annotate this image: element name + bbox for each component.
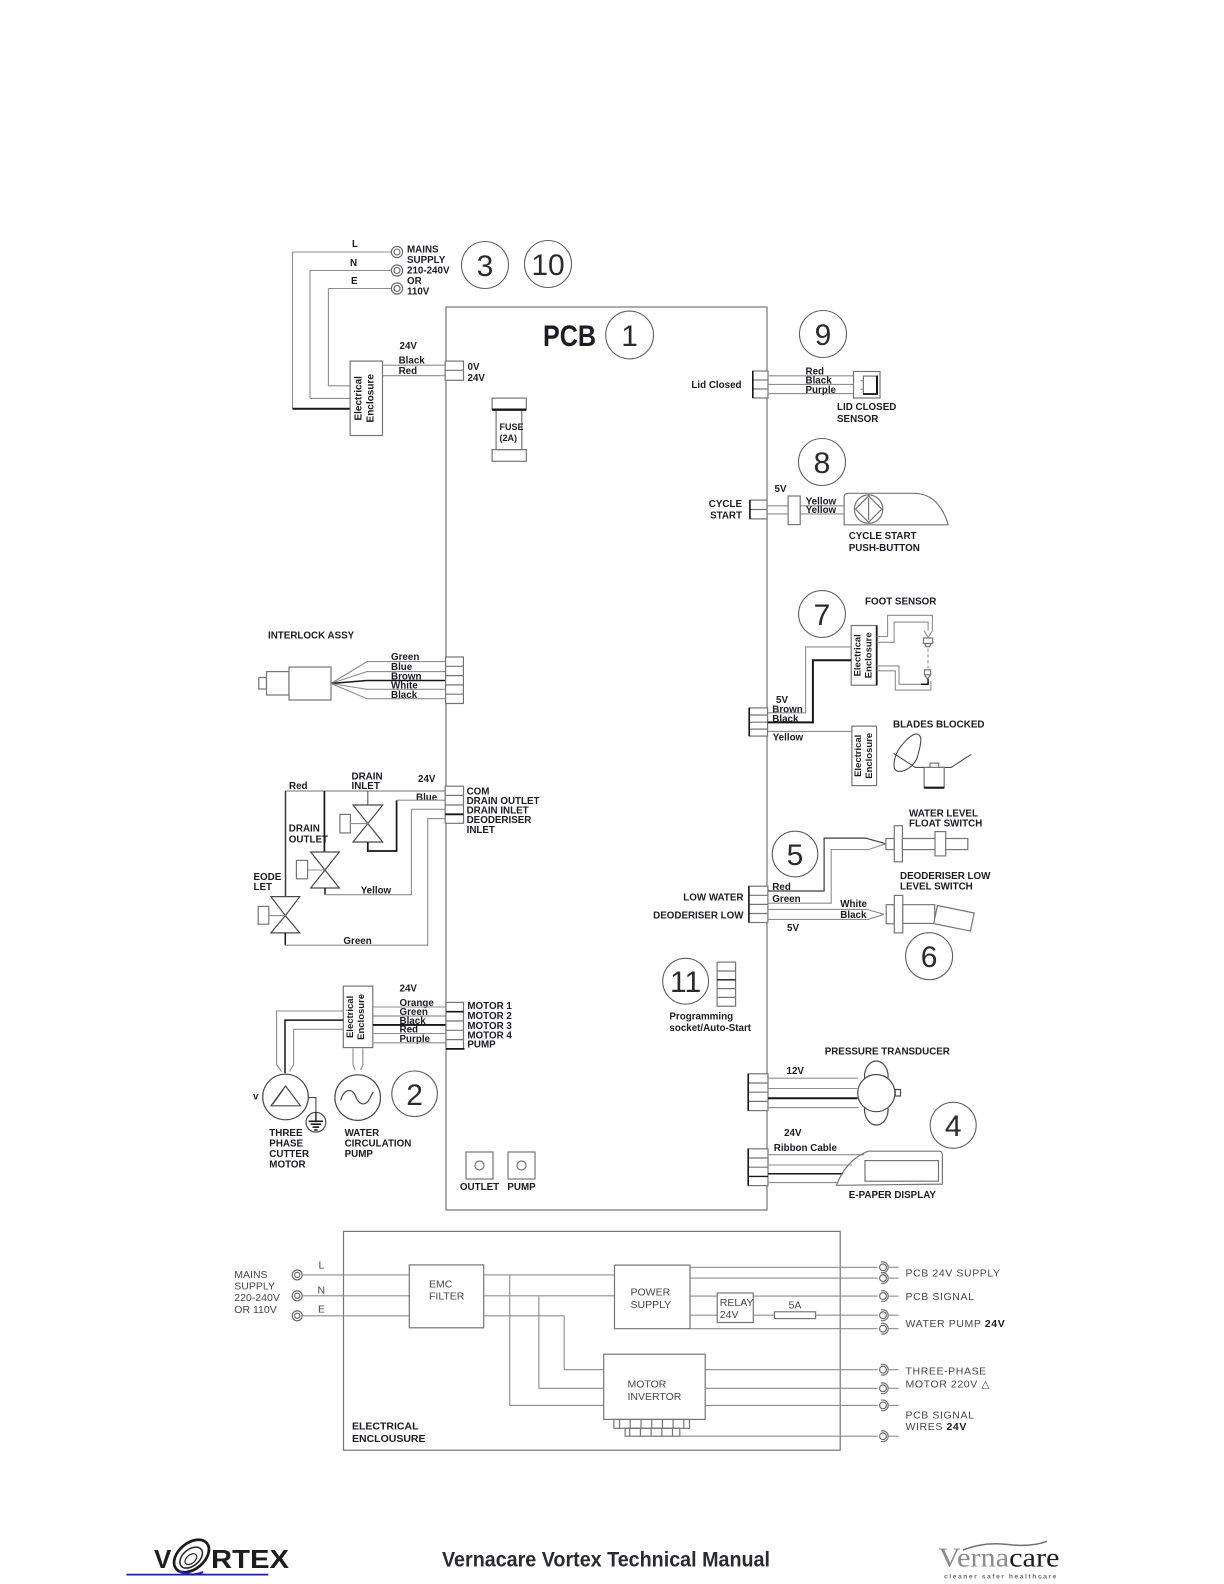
svg-text:Lid Closed: Lid Closed xyxy=(691,380,741,391)
label black xyxy=(840,910,867,921)
label v xyxy=(253,1092,259,1103)
svg-text:MAINS: MAINS xyxy=(407,245,439,256)
svg-text:E: E xyxy=(318,1304,325,1316)
label Black xyxy=(772,714,799,725)
label pcb 24v supply xyxy=(906,1267,1001,1279)
EMC filter box xyxy=(409,1265,483,1328)
pin labels valves xyxy=(467,786,540,836)
node pcb signal wires b xyxy=(880,1431,899,1442)
svg-text:9: 9 xyxy=(815,319,832,352)
wire tap E to invertor xyxy=(564,1316,604,1370)
label L xyxy=(352,239,358,250)
wire PS to PCB 24V supply 2 xyxy=(690,1277,878,1279)
node three-phase a xyxy=(880,1364,899,1375)
svg-text:Ribbon Cable: Ribbon Cable xyxy=(774,1143,838,1154)
svg-text:5V: 5V xyxy=(787,923,799,934)
svg-text:White: White xyxy=(840,899,867,910)
svg-text:Red: Red xyxy=(289,781,308,792)
programming socket connector xyxy=(717,962,736,1006)
wire E down to enclosure xyxy=(327,289,329,386)
node water pump a xyxy=(880,1310,899,1321)
svg-text:24V: 24V xyxy=(784,1128,802,1139)
svg-text:6: 6 xyxy=(921,941,938,974)
wire Red enclosure to PCB 24V xyxy=(383,375,447,377)
svg-text:24V: 24V xyxy=(418,774,436,785)
PCB main board outline xyxy=(446,307,767,1210)
label 12V xyxy=(787,1066,805,1077)
svg-text:Yellow: Yellow xyxy=(773,732,804,743)
svg-text:CYCLE: CYCLE xyxy=(709,499,743,510)
label 5V xyxy=(775,484,787,495)
svg-text:L: L xyxy=(352,239,358,250)
wires enclosure to PCB motor pins xyxy=(373,1007,447,1043)
node E terminal xyxy=(292,1311,302,1321)
interlock fan wires xyxy=(331,662,446,699)
label Red xyxy=(806,366,825,377)
label low water xyxy=(683,892,743,903)
power supply box xyxy=(615,1265,691,1329)
label 24V xyxy=(400,984,418,995)
svg-text:8: 8 xyxy=(814,447,831,480)
valve deoderiser inlet xyxy=(258,897,300,933)
ribbon wires xyxy=(768,1155,864,1183)
svg-text:LID CLOSED: LID CLOSED xyxy=(837,402,896,413)
svg-text:Enclosure: Enclosure xyxy=(366,374,377,423)
svg-text:PCB 24V SUPPLY: PCB 24V SUPPLY xyxy=(906,1267,1001,1279)
invertor connector teeth row 2 xyxy=(625,1428,680,1436)
svg-text:24V: 24V xyxy=(468,373,486,384)
svg-text:1: 1 xyxy=(621,320,638,353)
wire relay to fuse xyxy=(753,1314,774,1316)
label deoderiser low level switch xyxy=(900,871,991,893)
svg-text:OR: OR xyxy=(407,276,422,287)
wire Red bus vertical xyxy=(285,791,287,897)
svg-text:Green: Green xyxy=(343,936,371,947)
wire PS to PCB signal xyxy=(690,1295,878,1297)
wire Black enclosure to PCB 0V xyxy=(383,364,447,366)
blade drawing xyxy=(894,734,972,788)
wire E EMC to invertor tap xyxy=(484,1315,565,1317)
wire Red bus to COM xyxy=(286,790,446,792)
svg-text:PCB SIGNAL: PCB SIGNAL xyxy=(906,1291,975,1303)
wire E horizontal xyxy=(328,288,391,290)
label three phase cutter motor xyxy=(269,1128,309,1171)
svg-text:THREE: THREE xyxy=(269,1128,303,1139)
wire yellow 2 xyxy=(767,513,844,515)
wire fuse to water pump terminal xyxy=(816,1314,878,1316)
svg-text:Electrical: Electrical xyxy=(345,996,356,1038)
wire Red to float switch xyxy=(768,838,886,891)
svg-text:E-PAPER DISPLAY: E-PAPER DISPLAY xyxy=(849,1190,937,1201)
svg-text:MOTOR 220V △: MOTOR 220V △ xyxy=(906,1379,991,1391)
label mains supply xyxy=(407,245,450,298)
wire L to EMC xyxy=(302,1274,409,1276)
label programming socket xyxy=(669,1011,751,1034)
label Green xyxy=(343,936,371,947)
svg-text:Enclosure: Enclosure xyxy=(863,632,874,678)
label L xyxy=(319,1259,325,1271)
label blades blocked xyxy=(893,720,984,731)
electrical enclosure (foot sensor) xyxy=(851,626,877,686)
wire labels green/blue/brown/white/black xyxy=(391,652,421,701)
footer title xyxy=(442,1548,770,1571)
label Yellow 1 xyxy=(806,497,837,508)
connector cycle start on PCB edge xyxy=(750,500,767,519)
svg-text:FUSE: FUSE xyxy=(500,422,524,432)
svg-text:5V: 5V xyxy=(775,484,787,495)
wire L down to enclosure xyxy=(292,252,294,409)
svg-text:24V: 24V xyxy=(400,984,418,995)
lid closed sensor body xyxy=(854,372,881,399)
svg-text:START: START xyxy=(710,511,742,522)
svg-text:(2A): (2A) xyxy=(500,433,518,443)
wires enclosure to cutter motor xyxy=(277,1011,344,1073)
svg-text:Programming: Programming xyxy=(669,1011,733,1022)
svg-text:PUMP: PUMP xyxy=(467,1040,496,1051)
svg-text:WATER: WATER xyxy=(345,1128,380,1139)
label pcb signal wires 24v xyxy=(906,1410,975,1434)
wire Green to float switch xyxy=(768,844,886,903)
relay box xyxy=(717,1293,753,1323)
svg-text:Yellow: Yellow xyxy=(806,505,837,516)
label pressure transducer xyxy=(825,1047,950,1058)
invertor connector teeth row 1 xyxy=(614,1419,690,1428)
node pcb 24v supply a xyxy=(880,1262,899,1273)
wire drain outlet feed (black) xyxy=(323,791,325,852)
svg-text:LET: LET xyxy=(254,882,273,893)
wire tap L to invertor xyxy=(510,1275,604,1406)
svg-text:FILTER: FILTER xyxy=(429,1291,465,1303)
electrical enclosure (mains) xyxy=(350,361,382,435)
label Yellow xyxy=(361,886,392,897)
wire teeth to pcb signal wires 2 xyxy=(680,1435,878,1437)
callout circle 3 xyxy=(462,242,509,289)
pin labels motors xyxy=(467,1001,512,1050)
wire L into enclosure (black) xyxy=(293,408,351,410)
label Brown xyxy=(772,704,802,715)
wires enclosure to pump xyxy=(353,1048,363,1070)
motor invertor box xyxy=(604,1354,706,1419)
label E xyxy=(318,1304,325,1316)
svg-text:FOOT SENSOR: FOOT SENSOR xyxy=(865,597,936,608)
wire N EMC to power supply xyxy=(484,1295,615,1297)
label water circulation pump xyxy=(345,1128,412,1160)
svg-text:RELAY: RELAY xyxy=(720,1297,754,1309)
svg-text:Yellow: Yellow xyxy=(361,886,392,897)
motor wire labels xyxy=(400,998,435,1045)
label Red xyxy=(289,781,308,792)
node three-phase b xyxy=(880,1383,899,1394)
wire White to level switch xyxy=(768,909,884,914)
wire Black to lid sensor xyxy=(768,383,854,385)
svg-text:SUPPLY: SUPPLY xyxy=(234,1281,275,1293)
label electrical enclousure xyxy=(352,1421,426,1445)
ground symbol xyxy=(306,1098,326,1133)
svg-text:ENCLOUSURE: ENCLOUSURE xyxy=(352,1433,426,1445)
connector 12V on PCB edge xyxy=(748,1074,768,1111)
svg-text:THREE-PHASE: THREE-PHASE xyxy=(906,1366,987,1378)
label lid closed sensor xyxy=(837,402,896,425)
svg-text:MAINS: MAINS xyxy=(234,1269,267,1281)
svg-text:Black: Black xyxy=(391,690,418,701)
svg-text:OR 110V: OR 110V xyxy=(234,1304,276,1316)
cable grommet xyxy=(788,496,800,525)
svg-text:MOTOR: MOTOR xyxy=(628,1378,667,1390)
label Red xyxy=(399,366,418,377)
label Red xyxy=(772,882,791,893)
wire Black to level switch xyxy=(768,914,884,919)
callout circle 9 xyxy=(800,311,847,358)
svg-text:PUSH-BUTTON: PUSH-BUTTON xyxy=(849,543,920,554)
svg-text:Vernacare Vortex Technical Man: Vernacare Vortex Technical Manual xyxy=(442,1548,770,1571)
connector foot sensor on PCB edge xyxy=(749,708,767,736)
wire Black xyxy=(768,660,852,722)
wire E into enclosure xyxy=(328,385,350,387)
svg-text:7: 7 xyxy=(814,599,831,632)
svg-text:11: 11 xyxy=(670,966,701,999)
svg-text:0V: 0V xyxy=(468,362,480,373)
svg-text:INLET: INLET xyxy=(352,781,380,792)
svg-text:RTEX: RTEX xyxy=(211,1544,290,1574)
connector interlock on PCB edge xyxy=(446,657,464,704)
svg-text:DEODERISER LOW: DEODERISER LOW xyxy=(653,910,744,921)
svg-text:5A: 5A xyxy=(789,1300,802,1312)
cycle start push-button body xyxy=(844,493,948,525)
svg-text:PRESSURE TRANSDUCER: PRESSURE TRANSDUCER xyxy=(825,1047,950,1058)
label cycle start xyxy=(709,499,743,522)
svg-text:24V: 24V xyxy=(720,1309,739,1321)
wire invertor to pcb signal wires 1 xyxy=(705,1404,877,1406)
svg-text:E: E xyxy=(351,276,358,287)
svg-text:Black: Black xyxy=(399,355,426,366)
svg-text:N: N xyxy=(318,1284,326,1296)
svg-text:BLADES BLOCKED: BLADES BLOCKED xyxy=(893,720,984,731)
node pcb signal wires a xyxy=(880,1400,899,1411)
svg-text:3: 3 xyxy=(477,250,494,283)
svg-text:Enclosure: Enclosure xyxy=(356,994,367,1040)
interlock solenoid body xyxy=(259,667,331,700)
label 24V xyxy=(784,1128,802,1139)
svg-text:L: L xyxy=(319,1259,325,1271)
label N xyxy=(350,258,357,269)
label Black xyxy=(399,355,426,366)
svg-text:SUPPLY: SUPPLY xyxy=(407,255,446,266)
svg-text:WATER PUMP 24V: WATER PUMP 24V xyxy=(906,1318,1006,1330)
svg-text:CUTTER: CUTTER xyxy=(269,1149,309,1160)
svg-text:110V: 110V xyxy=(407,287,430,298)
callout circle 2 xyxy=(392,1071,438,1117)
wire L EMC to power supply xyxy=(484,1274,615,1276)
label Purple xyxy=(806,385,837,396)
svg-text:LOW WATER: LOW WATER xyxy=(683,892,743,903)
connector ribbon on PCB edge xyxy=(748,1149,768,1186)
label water level float switch xyxy=(909,808,982,829)
svg-text:cleaner safer healthcare: cleaner safer healthcare xyxy=(944,1574,1058,1581)
pin label 0V xyxy=(468,362,480,373)
svg-text:N: N xyxy=(350,258,357,269)
deoderiser low level switch xyxy=(886,895,974,933)
svg-text:POWER: POWER xyxy=(631,1287,671,1299)
node E terminal xyxy=(391,283,402,294)
svg-text:OUTLET: OUTLET xyxy=(289,835,328,846)
svg-text:WIRES 24V: WIRES 24V xyxy=(906,1421,967,1433)
wire N horizontal xyxy=(310,270,392,272)
label mains supply xyxy=(234,1269,280,1316)
svg-text:PHASE: PHASE xyxy=(269,1139,303,1150)
wire green from deoderiser valve xyxy=(285,819,445,946)
wire yellow from drain outlet valve xyxy=(325,809,445,894)
wire Purple to lid sensor xyxy=(768,393,854,395)
svg-text:Electrical: Electrical xyxy=(852,634,863,676)
node L terminal xyxy=(391,246,402,257)
svg-text:PCB: PCB xyxy=(543,320,596,353)
wire yellow 1 xyxy=(767,505,844,507)
callout circle 4 xyxy=(930,1102,976,1148)
label three-phase motor xyxy=(906,1366,991,1391)
svg-text:PCB SIGNAL: PCB SIGNAL xyxy=(906,1410,975,1422)
pressure transducer body xyxy=(858,1061,901,1125)
connector motors on PCB edge xyxy=(446,1002,465,1049)
wire N into enclosure xyxy=(310,397,350,399)
wire Red to lid sensor xyxy=(768,375,854,377)
svg-text:5: 5 xyxy=(787,839,804,872)
label foot sensor xyxy=(865,597,936,608)
node pcb signal xyxy=(880,1291,899,1302)
wire PS bottom to water pump terminal 2 xyxy=(690,1328,878,1330)
svg-text:PUMP: PUMP xyxy=(345,1149,374,1160)
label cycle start push-button xyxy=(849,531,920,554)
wire N to EMC xyxy=(302,1295,409,1297)
vernacare logo xyxy=(939,1541,1060,1580)
wire tap N to invertor xyxy=(539,1296,604,1389)
svg-text:SUPPLY: SUPPLY xyxy=(631,1299,672,1311)
wires to pressure transducer xyxy=(768,1078,859,1107)
connector valves on PCB edge xyxy=(445,786,463,823)
svg-text:MOTOR: MOTOR xyxy=(269,1160,305,1171)
svg-text:INLET: INLET xyxy=(467,825,495,836)
wire L horizontal xyxy=(293,251,392,253)
label water pump 24v xyxy=(906,1318,1006,1330)
PCB title xyxy=(543,320,596,353)
wire invertor to three-phase terminal 1 xyxy=(705,1369,877,1371)
callout circle 1 xyxy=(606,311,654,359)
svg-text:DRAIN: DRAIN xyxy=(289,824,320,835)
svg-text:2: 2 xyxy=(406,1079,423,1112)
label deoderiser inlet (clipped) xyxy=(254,872,282,893)
node pcb 24v supply b xyxy=(880,1273,899,1284)
pump indicator xyxy=(507,1152,536,1193)
fuse F1 (2A) xyxy=(492,398,526,461)
svg-text:CIRCULATION: CIRCULATION xyxy=(345,1139,412,1150)
svg-text:24V: 24V xyxy=(400,341,418,352)
electrical enclosure (motors) xyxy=(343,986,373,1048)
wire PS to relay xyxy=(690,1314,717,1316)
wire E to EMC xyxy=(302,1315,409,1317)
svg-text:Electrical: Electrical xyxy=(853,735,864,777)
label E xyxy=(351,276,358,287)
node N terminal xyxy=(391,265,402,276)
svg-text:210-240V: 210-240V xyxy=(407,266,450,277)
svg-text:Enclosure: Enclosure xyxy=(864,733,875,779)
three phase cutter motor xyxy=(263,1074,309,1120)
wire invertor to three-phase terminal 2 xyxy=(705,1387,877,1389)
node L terminal xyxy=(292,1270,302,1280)
wire N down to enclosure xyxy=(309,271,311,399)
svg-text:PUMP: PUMP xyxy=(507,1182,536,1193)
connector water sensors on PCB edge xyxy=(749,886,768,922)
wire PS to PCB 24V supply 1 xyxy=(690,1266,878,1268)
svg-text:10: 10 xyxy=(531,249,564,282)
electrical enclosure (blades) xyxy=(852,726,877,786)
connector lid closed on PCB edge xyxy=(753,371,768,398)
callout circle 7 xyxy=(799,591,846,638)
outlet indicator xyxy=(460,1152,499,1193)
label white xyxy=(840,899,867,910)
svg-text:12V: 12V xyxy=(787,1066,805,1077)
foot sensor switch wiring xyxy=(877,615,933,690)
pin label 24V xyxy=(468,373,486,384)
svg-text:INTERLOCK ASSY: INTERLOCK ASSY xyxy=(268,631,355,642)
label Yellow xyxy=(773,732,804,743)
label N xyxy=(318,1284,326,1296)
label ribbon cable xyxy=(774,1143,838,1154)
svg-text:DEODERISER LOW: DEODERISER LOW xyxy=(900,871,991,882)
connector 0V/24V on PCB xyxy=(445,361,463,380)
label deoderiser low xyxy=(653,910,744,921)
vortex logo xyxy=(127,1533,290,1579)
node N terminal xyxy=(292,1291,302,1301)
label pcb signal xyxy=(906,1291,975,1303)
svg-text:Electrical: Electrical xyxy=(354,376,365,421)
label Blue xyxy=(416,792,438,803)
svg-text:4: 4 xyxy=(945,1110,962,1143)
callout circle 10 xyxy=(525,241,572,288)
svg-text:EMC: EMC xyxy=(429,1278,453,1290)
water circulation pump xyxy=(335,1075,381,1121)
svg-text:Purple: Purple xyxy=(806,385,837,396)
label Black xyxy=(806,376,833,387)
svg-text:FLOAT SWITCH: FLOAT SWITCH xyxy=(909,818,982,829)
label Lid Closed xyxy=(691,380,741,391)
fuse 5A xyxy=(774,1300,815,1319)
svg-text:220-240V: 220-240V xyxy=(234,1292,280,1304)
svg-text:v: v xyxy=(253,1092,259,1103)
label 24V xyxy=(400,341,418,352)
wire Yellow xyxy=(768,730,852,732)
svg-text:Vernacare: Vernacare xyxy=(939,1543,1060,1573)
label interlock assy xyxy=(268,631,355,642)
enclosure box xyxy=(344,1231,841,1450)
label drain outlet xyxy=(289,824,328,846)
wire Brown xyxy=(768,647,852,713)
svg-text:LEVEL SWITCH: LEVEL SWITCH xyxy=(900,881,973,892)
callout circle 11 xyxy=(663,958,709,1004)
callout circle 6 xyxy=(906,933,953,980)
svg-text:V: V xyxy=(154,1544,172,1574)
svg-text:CYCLE START: CYCLE START xyxy=(849,531,917,542)
node water pump b xyxy=(880,1323,899,1334)
label drain inlet xyxy=(352,772,383,793)
water level float switch xyxy=(886,826,968,862)
svg-text:OUTLET: OUTLET xyxy=(460,1182,499,1193)
callout circle 8 xyxy=(799,439,846,486)
wire blue from drain inlet valve xyxy=(368,800,445,851)
svg-text:SENSOR: SENSOR xyxy=(837,414,878,425)
callout circle 5 xyxy=(772,831,818,877)
valve drain outlet xyxy=(296,852,339,888)
valve drain inlet xyxy=(340,791,383,842)
svg-text:ELECTRICAL: ELECTRICAL xyxy=(352,1421,419,1433)
